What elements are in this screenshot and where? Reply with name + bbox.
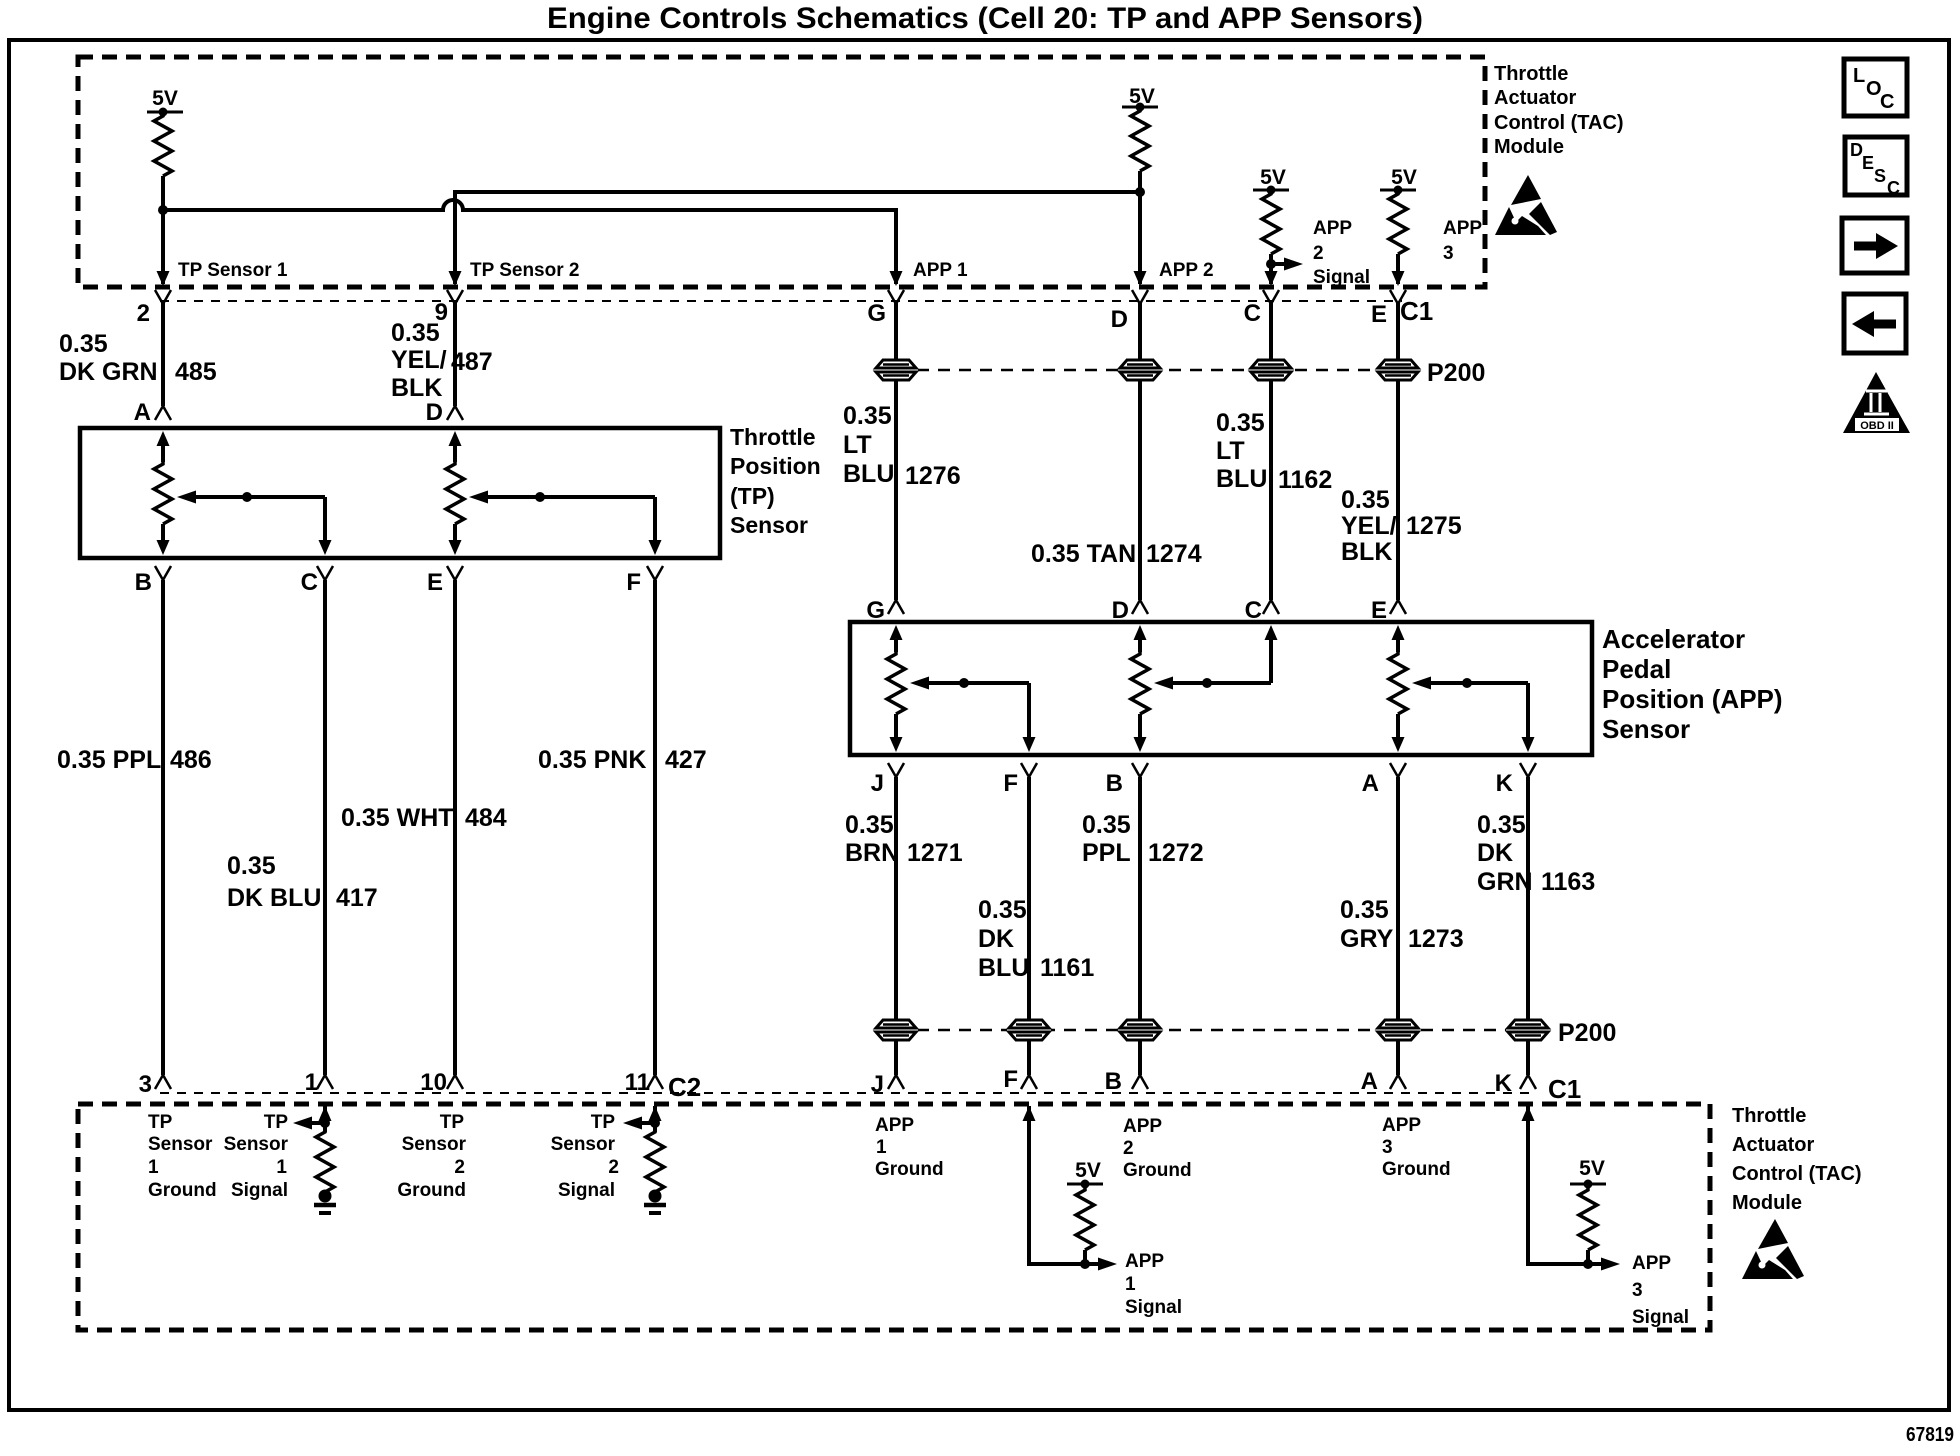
svg-text:0.35: 0.35	[843, 402, 892, 430]
svg-text:E: E	[1862, 153, 1874, 173]
svg-text:J: J	[871, 1071, 884, 1098]
svg-text:487: 487	[451, 348, 493, 376]
resistor (APP2 signal pull-up)	[1262, 192, 1280, 254]
pin 9 connector Y	[447, 290, 463, 304]
wire 5V rail to APP 1 (hops TP Sensor 2 wire)	[163, 200, 896, 284]
svg-text:P200: P200	[1558, 1019, 1616, 1047]
svg-text:Pedal: Pedal	[1602, 654, 1671, 684]
TP pot 2 resistor	[453, 444, 457, 462]
svg-text:S: S	[1874, 166, 1886, 186]
APP pot 1 arrow up	[890, 625, 903, 640]
svg-text:2: 2	[1123, 1138, 1134, 1159]
svg-text:0.35: 0.35	[1340, 896, 1389, 924]
connector P200 on G	[874, 359, 918, 382]
connector C1/C2 line (bottom, thin dashed)	[160, 1092, 1532, 1094]
wire resistor to node	[1269, 254, 1273, 264]
svg-text:1: 1	[1125, 1274, 1136, 1295]
svg-text:C1: C1	[1400, 296, 1433, 326]
wire pinC to APP sensor C	[1269, 302, 1273, 600]
svg-text:0.35: 0.35	[59, 330, 108, 358]
svg-text:APP: APP	[875, 1115, 914, 1136]
TP sensor F pin Y	[647, 566, 663, 580]
wire TP B to pin 3	[161, 580, 165, 1075]
svg-text:C: C	[1880, 91, 1894, 113]
svg-text:L: L	[1853, 65, 1865, 87]
svg-text:0.35 TAN: 0.35 TAN	[1031, 540, 1136, 568]
wire TP Sensor 1 into module pin	[161, 210, 165, 284]
svg-text:APP: APP	[1443, 218, 1482, 239]
arrow into module at pin 11	[649, 1106, 662, 1121]
wire APP F to module pin F	[1027, 777, 1031, 1075]
TP sensor B pin Y	[155, 566, 171, 580]
arrow into pin C	[1265, 271, 1278, 286]
svg-text:Actuator: Actuator	[1494, 87, 1576, 109]
wire APP K to module pin K	[1526, 777, 1530, 1075]
svg-text:Accelerator: Accelerator	[1602, 624, 1745, 654]
forward arrow icon	[1842, 218, 1907, 273]
svg-text:G: G	[866, 597, 885, 624]
APP pot 3 wiper	[1412, 677, 1431, 690]
TP sensor 2 signal branch	[653, 1106, 657, 1132]
TAC module box (top)	[78, 57, 1485, 287]
APP sensor E pin Y	[1390, 600, 1406, 614]
pin F connector Y	[1021, 1075, 1037, 1089]
APP sensor D pin Y	[1132, 600, 1148, 614]
5V supply (APP 3 feed)	[1380, 189, 1416, 192]
wire resistor to node	[161, 176, 165, 210]
APP pot 2 resistor	[1138, 638, 1142, 652]
APP pot 3 arrow down	[1392, 737, 1405, 752]
svg-text:486: 486	[170, 746, 212, 774]
pin 2 connector Y	[155, 290, 171, 304]
Accelerator Pedal Position sensor box	[850, 622, 1592, 755]
svg-text:Module: Module	[1494, 136, 1564, 158]
pin 3 connector Y	[155, 1075, 171, 1089]
svg-text:3: 3	[1443, 243, 1454, 264]
svg-text:Actuator: Actuator	[1732, 1134, 1814, 1156]
svg-text:1: 1	[148, 1157, 159, 1178]
svg-text:Sensor: Sensor	[551, 1134, 616, 1155]
svg-text:2: 2	[1313, 243, 1324, 264]
svg-text:1163: 1163	[1541, 868, 1595, 896]
svg-text:Signal: Signal	[1313, 267, 1370, 288]
LOC icon box	[1844, 59, 1907, 116]
svg-text:D: D	[426, 399, 443, 426]
svg-text:LT: LT	[1216, 437, 1245, 465]
APP pot 2 arrow down	[1134, 737, 1147, 752]
arrow APP2 signal	[1284, 258, 1303, 271]
svg-text:3: 3	[1632, 1280, 1643, 1301]
svg-text:Ground: Ground	[875, 1159, 944, 1180]
pin J connector Y	[888, 1075, 904, 1089]
svg-text:BLK: BLK	[1341, 538, 1392, 566]
svg-text:APP 2: APP 2	[1159, 260, 1214, 281]
svg-text:B: B	[1106, 770, 1123, 797]
resistor (TP 5V pull-up)	[154, 114, 172, 176]
wire resistor to node	[1138, 171, 1142, 192]
svg-text:E: E	[1371, 301, 1387, 328]
svg-text:0.35 PNK: 0.35 PNK	[538, 746, 646, 774]
node junction (APP2 5V / TP Sensor 2 rail)	[1135, 187, 1145, 197]
TP sensor D pin Y	[447, 406, 463, 420]
node junction APP3 signal	[1583, 1259, 1593, 1269]
arrow into pin G	[890, 271, 903, 286]
svg-text:TP: TP	[591, 1112, 616, 1133]
svg-text:Signal: Signal	[558, 1180, 615, 1201]
APP sensor C pin Y	[1263, 600, 1279, 614]
svg-text:0.35: 0.35	[391, 319, 440, 347]
svg-text:F: F	[1003, 1066, 1018, 1093]
svg-text:5V: 5V	[1129, 85, 1155, 108]
wire APP2 signal to pin C	[1269, 264, 1273, 284]
wire to APP1 signal label	[1085, 1262, 1105, 1266]
svg-text:TP: TP	[440, 1112, 465, 1133]
wire APP A to module pin A	[1396, 777, 1400, 1075]
TP sensor A pin Y	[155, 406, 171, 420]
wire to APP3 signal label	[1588, 1262, 1608, 1266]
connector P200 on C	[1249, 359, 1293, 382]
TP pot 2 wiper	[469, 491, 488, 504]
APP wiper 1 arrow down	[1023, 737, 1036, 752]
svg-text:LT: LT	[843, 431, 872, 459]
svg-text:3: 3	[1382, 1137, 1393, 1158]
svg-text:0.35: 0.35	[1082, 811, 1131, 839]
svg-text:C1: C1	[1548, 1074, 1581, 1104]
svg-text:Signal: Signal	[1632, 1307, 1689, 1328]
arrow to TP sensor 2 signal label	[623, 1117, 642, 1130]
wire TP Sensor 2 rail to APP2 5V node	[455, 192, 1140, 284]
svg-text:1276: 1276	[905, 462, 961, 490]
connector P200 on D	[1118, 359, 1162, 382]
svg-text:A: A	[1361, 1068, 1378, 1095]
wire pinG to APP sensor G	[894, 302, 898, 600]
svg-text:Control (TAC): Control (TAC)	[1494, 112, 1624, 134]
svg-text:Sensor: Sensor	[224, 1134, 289, 1155]
svg-text:484: 484	[465, 804, 507, 832]
svg-text:1275: 1275	[1406, 512, 1462, 540]
5V supply (TP sensor feed)	[147, 111, 183, 114]
svg-text:D: D	[1112, 597, 1129, 624]
svg-text:F: F	[1003, 770, 1018, 797]
svg-text:BLK: BLK	[391, 374, 442, 402]
TP wiper 1 arrow down	[319, 540, 332, 555]
svg-text:2: 2	[608, 1157, 619, 1178]
svg-text:C: C	[1245, 597, 1262, 624]
svg-text:2: 2	[137, 300, 150, 327]
APP pot 2 wiper	[1154, 677, 1173, 690]
svg-text:B: B	[1105, 1068, 1122, 1095]
wire TP E to pin 10	[453, 580, 457, 1075]
arrow into pin 9	[449, 271, 462, 286]
svg-text:J: J	[871, 770, 884, 797]
APP sensor K pin Y	[1520, 763, 1536, 777]
svg-text:2: 2	[454, 1157, 465, 1178]
node junction (5V rail / TP Sensor 1)	[158, 205, 168, 215]
svg-text:APP 1: APP 1	[913, 260, 968, 281]
wire TP C to pin 1	[323, 580, 327, 1075]
arrow into pin E	[1392, 271, 1405, 286]
5V supply (APP3 signal comparator)	[1570, 1183, 1606, 1186]
resistor (TP1 signal pull-down)	[316, 1130, 334, 1192]
svg-text:TP Sensor 1: TP Sensor 1	[178, 260, 288, 281]
svg-text:Throttle: Throttle	[730, 424, 816, 450]
svg-text:Throttle: Throttle	[1494, 63, 1568, 85]
svg-text:Ground: Ground	[1382, 1159, 1451, 1180]
TP sensor C pin Y	[317, 566, 333, 580]
svg-text:1272: 1272	[1148, 839, 1204, 867]
APP wiper 3 arrow down	[1522, 737, 1535, 752]
svg-text:1: 1	[876, 1137, 887, 1158]
TAC module box (bottom)	[78, 1104, 1710, 1330]
svg-text:10: 10	[420, 1069, 447, 1096]
svg-text:DK: DK	[1477, 839, 1513, 867]
svg-text:BLU: BLU	[843, 460, 894, 488]
svg-text:E: E	[1371, 597, 1387, 624]
arrow into pin 2	[157, 271, 170, 286]
connector P200 on K	[1506, 1019, 1550, 1042]
TP wiper 2 arrow down	[649, 540, 662, 555]
TP pot 1 arrow up	[157, 431, 170, 446]
svg-text:Position (APP): Position (APP)	[1602, 684, 1783, 714]
APP sensor B pin Y	[1132, 763, 1148, 777]
svg-text:A: A	[134, 399, 151, 426]
svg-text:0.35 PPL: 0.35 PPL	[57, 746, 161, 774]
P200 dashed link (top)	[896, 369, 1420, 372]
ESD symbol (top TAC module)	[1495, 175, 1557, 235]
wire APP1 signal inside module	[1029, 1106, 1085, 1264]
wire APP2 signal branch	[1271, 262, 1291, 266]
DESC icon box	[1845, 137, 1907, 195]
pin E connector Y	[1390, 290, 1406, 304]
APP sensor G pin Y	[888, 600, 904, 614]
svg-text:K: K	[1496, 770, 1514, 797]
svg-text:C: C	[1244, 300, 1261, 327]
pin 10 connector Y	[447, 1075, 463, 1089]
svg-text:Ground: Ground	[397, 1180, 466, 1201]
svg-text:Signal: Signal	[231, 1180, 288, 1201]
wire pin2 to TP sensor A	[161, 302, 165, 406]
svg-text:YEL/: YEL/	[391, 346, 447, 374]
pin K connector Y	[1520, 1075, 1536, 1089]
svg-text:YEL/: YEL/	[1341, 512, 1397, 540]
APP sensor A pin Y	[1390, 763, 1406, 777]
Throttle Position sensor box	[80, 428, 720, 558]
svg-text:(TP): (TP)	[730, 483, 775, 509]
TP pot 2 arrow up	[449, 431, 462, 446]
svg-text:1: 1	[305, 1069, 318, 1096]
APP pot 1 arrow down	[890, 737, 903, 752]
APP pot 1 wiper	[910, 677, 929, 690]
svg-text:0.35 WHT: 0.35 WHT	[341, 804, 454, 832]
wire pinE to APP sensor E	[1396, 302, 1400, 600]
connector C1/C2 line (top, thin dashed)	[160, 300, 1402, 302]
APP sensor F pin Y	[1021, 763, 1037, 777]
pin C connector Y	[1263, 290, 1279, 304]
TP pot 1 resistor	[161, 444, 165, 462]
wire APP B to module pin B	[1138, 777, 1142, 1075]
APP pot 2 arrow up	[1134, 625, 1147, 640]
svg-text:Sensor: Sensor	[730, 512, 808, 538]
pin G connector Y	[888, 290, 904, 304]
wire pinD to APP sensor D	[1138, 302, 1142, 600]
svg-text:5V: 5V	[1391, 166, 1417, 189]
connector P200 on A	[1376, 1019, 1420, 1042]
svg-text:APP: APP	[1632, 1253, 1671, 1274]
P200 dashed link (bottom)	[896, 1029, 1548, 1032]
connector P200 on B	[1118, 1019, 1162, 1042]
TP sensor 1 signal branch	[323, 1106, 327, 1132]
svg-text:P200: P200	[1427, 359, 1485, 387]
arrow into module at pin 1	[319, 1106, 332, 1121]
APP wiper 2 arrow up	[1265, 625, 1278, 640]
arrow into pin D	[1134, 271, 1147, 286]
5V supply (APP 2 signal pull-up)	[1253, 189, 1289, 192]
svg-text:427: 427	[665, 746, 707, 774]
5V supply (APP 2 feed)	[1122, 106, 1158, 109]
wire APP J to module pin J	[894, 777, 898, 1075]
svg-text:D: D	[1111, 306, 1128, 333]
svg-text:DK BLU: DK BLU	[227, 884, 321, 912]
svg-text:Engine Controls Schematics (Ce: Engine Controls Schematics (Cell 20: TP …	[547, 2, 1423, 35]
pin B connector Y	[1132, 1075, 1148, 1089]
svg-text:E: E	[427, 569, 443, 596]
svg-text:K: K	[1495, 1070, 1513, 1097]
svg-text:1161: 1161	[1040, 954, 1094, 982]
svg-text:DK GRN: DK GRN	[59, 358, 158, 386]
pin 11 connector Y	[647, 1075, 663, 1089]
APP sensor J pin Y	[888, 763, 904, 777]
svg-text:0.35: 0.35	[227, 852, 276, 880]
svg-text:BLU: BLU	[1216, 465, 1267, 493]
svg-text:PPL: PPL	[1082, 839, 1131, 867]
arrow APP1 signal	[1098, 1258, 1117, 1271]
node junction (APP 2 signal)	[1266, 259, 1276, 269]
svg-text:Position: Position	[730, 453, 821, 479]
svg-text:A: A	[1362, 770, 1379, 797]
resistor (TP2 signal pull-down)	[646, 1130, 664, 1192]
svg-text:Sensor: Sensor	[1602, 714, 1690, 744]
svg-text:APP: APP	[1123, 1116, 1162, 1137]
svg-text:TP: TP	[148, 1112, 173, 1133]
svg-text:67819: 67819	[1906, 1424, 1954, 1446]
svg-text:APP: APP	[1382, 1115, 1421, 1136]
APP pot 1 resistor	[894, 638, 898, 652]
svg-text:5V: 5V	[1579, 1157, 1605, 1180]
APP pot 3 arrow up	[1392, 625, 1405, 640]
svg-text:C2: C2	[668, 1072, 701, 1102]
TP sensor E pin Y	[447, 566, 463, 580]
svg-text:C: C	[1887, 178, 1900, 198]
wire APP 2 into module pin D	[1138, 192, 1142, 284]
svg-text:1: 1	[276, 1157, 287, 1178]
svg-text:BRN: BRN	[845, 839, 899, 867]
svg-text:1271: 1271	[907, 839, 963, 867]
connector P200 on F	[1007, 1019, 1051, 1042]
svg-text:0.35: 0.35	[1216, 409, 1265, 437]
back arrow icon	[1844, 294, 1906, 353]
node junction APP1 signal	[1080, 1259, 1090, 1269]
svg-text:Module: Module	[1732, 1192, 1802, 1214]
svg-text:BLU: BLU	[978, 954, 1029, 982]
arrow APP3 signal	[1601, 1258, 1620, 1271]
APP pot 3 resistor	[1396, 638, 1400, 652]
svg-text:B: B	[135, 569, 152, 596]
svg-text:G: G	[867, 300, 886, 327]
svg-text:3: 3	[139, 1071, 152, 1098]
arrow into module at pin K	[1522, 1106, 1535, 1121]
wire APP3 signal inside module	[1528, 1106, 1588, 1264]
resistor (APP3 5V pull-up)	[1389, 192, 1407, 254]
svg-text:GRY: GRY	[1340, 925, 1394, 953]
svg-text:OBD II: OBD II	[1860, 420, 1894, 432]
svg-text:C: C	[301, 569, 318, 596]
svg-text:Ground: Ground	[1123, 1160, 1192, 1181]
svg-text:APP: APP	[1125, 1251, 1164, 1272]
resistor (APP2 5V pull-up)	[1131, 109, 1149, 171]
wire pin9 to TP sensor D	[453, 302, 457, 406]
connector P200 on J	[874, 1019, 918, 1042]
pin 1 connector Y	[317, 1075, 333, 1089]
OBD II icon	[1843, 372, 1910, 433]
svg-text:5V: 5V	[1260, 166, 1286, 189]
svg-text:Control (TAC): Control (TAC)	[1732, 1163, 1862, 1185]
svg-text:APP: APP	[1313, 218, 1352, 239]
svg-text:TP Sensor 2: TP Sensor 2	[470, 260, 579, 281]
svg-text:0.35: 0.35	[1477, 811, 1526, 839]
svg-text:Throttle: Throttle	[1732, 1105, 1806, 1127]
svg-text:TP: TP	[264, 1112, 289, 1133]
svg-text:F: F	[626, 569, 641, 596]
svg-text:5V: 5V	[152, 87, 178, 110]
pin D connector Y	[1132, 290, 1148, 304]
svg-text:1273: 1273	[1408, 925, 1464, 953]
connector P200 on E	[1376, 359, 1420, 382]
arrow into module at pin F	[1023, 1106, 1036, 1121]
svg-text:Signal: Signal	[1125, 1297, 1182, 1318]
TP pot 2 arrow down	[449, 540, 462, 555]
TP pot 1 wiper	[177, 491, 196, 504]
svg-text:0.35: 0.35	[978, 896, 1027, 924]
wire APP3 to pin E	[1396, 254, 1400, 284]
5V supply (APP1 signal comparator)	[1067, 1183, 1103, 1186]
svg-text:Sensor: Sensor	[148, 1134, 213, 1155]
wire TP F to pin 11	[653, 580, 657, 1075]
svg-text:DK: DK	[978, 925, 1014, 953]
svg-text:485: 485	[175, 358, 217, 386]
svg-text:5V: 5V	[1075, 1159, 1101, 1182]
ESD symbol (bottom TAC module)	[1742, 1219, 1804, 1279]
svg-text:417: 417	[336, 884, 378, 912]
svg-text:11: 11	[625, 1069, 650, 1096]
svg-text:0.35: 0.35	[845, 811, 894, 839]
ground (TP2 signal)	[644, 1190, 666, 1214]
svg-text:Ground: Ground	[148, 1180, 217, 1201]
resistor (APP3 signal 5V)	[1579, 1188, 1597, 1250]
svg-text:1274: 1274	[1146, 540, 1202, 568]
svg-text:Sensor: Sensor	[402, 1134, 467, 1155]
arrow to TP sensor 1 signal label	[293, 1117, 312, 1130]
svg-text:GRN: GRN	[1477, 868, 1533, 896]
resistor (APP1 signal 5V)	[1076, 1188, 1094, 1250]
svg-text:0.35: 0.35	[1341, 486, 1390, 514]
TP pot 1 arrow down	[157, 540, 170, 555]
svg-text:1162: 1162	[1278, 466, 1332, 494]
pin A connector Y	[1390, 1075, 1406, 1089]
ground (TP1 signal)	[314, 1190, 336, 1214]
